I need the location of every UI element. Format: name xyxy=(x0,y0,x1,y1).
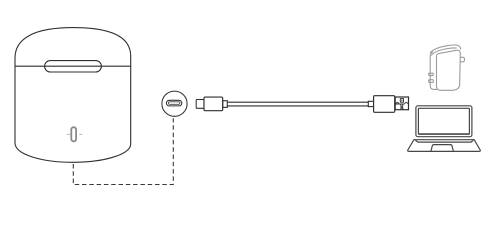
laptop deck line xyxy=(415,140,473,142)
cable: usb-c plug tip xyxy=(196,100,204,109)
cable: usb-c strain relief xyxy=(223,101,228,108)
laptop screen inner bottom emphasis xyxy=(419,133,470,135)
cable: cord top line xyxy=(227,101,368,103)
charging case body xyxy=(15,28,131,163)
cable: usb-a strain relief xyxy=(368,101,373,106)
laptop touchpad xyxy=(431,145,454,152)
adapter front face xyxy=(437,50,461,90)
usb-c port circle xyxy=(162,91,187,116)
logo on case xyxy=(67,127,82,141)
laptop base xyxy=(408,140,481,152)
laptop screen inner xyxy=(418,108,469,134)
adapter top back edge xyxy=(430,45,460,53)
cable: usb-a metal shell xyxy=(395,97,408,110)
usb-c port inner xyxy=(168,102,180,105)
cable: cord bottom line xyxy=(227,105,368,107)
adapter back plate xyxy=(430,52,437,90)
adapter top mid ridge xyxy=(431,48,457,56)
usb-c port outer xyxy=(166,100,181,106)
dashed pointer line xyxy=(73,118,173,184)
adapter plug prong xyxy=(461,57,465,62)
laptop screen outer xyxy=(416,106,472,137)
adapter side slots xyxy=(429,73,434,75)
cable: usb-c plug body xyxy=(204,97,223,111)
case lid line xyxy=(15,65,131,67)
case hinge oval xyxy=(45,61,102,72)
laptop xyxy=(408,106,481,152)
power adapter xyxy=(429,45,465,90)
cable: usb-a body xyxy=(374,96,395,113)
usb trident emblem xyxy=(395,99,408,109)
